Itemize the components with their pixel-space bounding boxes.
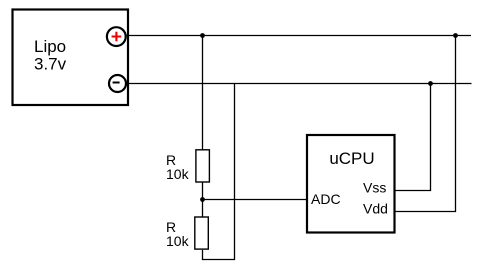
junction dot: GND rail to Vss branch: [428, 81, 433, 86]
wire ADC node to uCPU ADC pin: [203, 199, 308, 201]
wire Vss pin to GND rail: [396, 84, 431, 191]
node ADC junction dot: [200, 197, 205, 202]
svg-text:ADC: ADC: [311, 191, 341, 207]
wire R1 bottom to ADC node: [202, 183, 204, 200]
wire GND rail (battery - to right side): [126, 83, 472, 85]
junction dot: + rail to Vdd branch: [453, 33, 458, 38]
label R1 "R 10k": [166, 152, 190, 182]
svg-text:uCPU: uCPU: [329, 149, 374, 168]
battery - terminal: [109, 75, 126, 92]
svg-text:Vss: Vss: [363, 179, 386, 195]
battery BT1 box (Lipo 3.7v): [13, 10, 129, 106]
svg-text:10k: 10k: [166, 233, 190, 249]
wire Vdd pin to + rail: [396, 36, 456, 212]
svg-text:Lipo: Lipo: [34, 37, 66, 56]
label R2 "R 10k": [166, 219, 190, 249]
resistor R2 body: [195, 217, 209, 249]
junction dot: + rail to divider: [200, 33, 205, 38]
svg-text:3.7v: 3.7v: [34, 55, 67, 74]
resistor R1 body: [196, 150, 210, 182]
wire from + rail down to R1: [202, 36, 204, 150]
svg-text:Vdd: Vdd: [363, 201, 388, 217]
wire R2 bottom return to GND rail: [203, 84, 235, 260]
wire +V rail (battery + to right side): [126, 35, 472, 37]
IC U1 uCPU box: [307, 135, 395, 233]
battery + terminal: [107, 27, 126, 46]
wire ADC node down to R2: [202, 200, 204, 217]
battery label "Lipo 3.7v": [34, 37, 67, 73]
svg-text:10k: 10k: [166, 166, 190, 182]
